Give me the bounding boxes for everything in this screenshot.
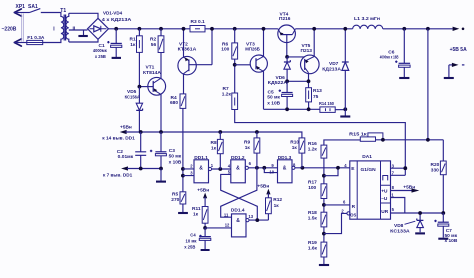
junction VT5 emitter/rail: [312, 27, 316, 31]
svg-text:R10: R10: [290, 140, 299, 146]
wire: DD1.3 output to DA1 E pin: [295, 167, 350, 169]
zener VD5: [125, 87, 143, 132]
svg-text:МП26Б: МП26Б: [245, 47, 260, 53]
junction DD1.3 pin10 tap: [262, 166, 266, 170]
node +5Vn feed arrow (to pin 14 DD1): [102, 124, 135, 141]
svg-text:270: 270: [171, 197, 179, 203]
svg-text:VT1: VT1: [146, 65, 155, 71]
resistor R6: [221, 29, 237, 93]
svg-text:12: 12: [225, 222, 230, 227]
junction R18/R19 (OS pin): [322, 232, 326, 236]
core: [64, 15, 65, 41]
svg-text:1к: 1к: [245, 145, 251, 151]
junction R17/R18 (R pin): [322, 203, 326, 207]
transistor VT4: [278, 11, 296, 57]
junction VD5/C2/rail: [139, 130, 143, 134]
svg-text:R19: R19: [308, 240, 317, 246]
inductor L1: [353, 16, 383, 29]
svg-text:П216: П216: [279, 16, 291, 22]
wire: DD1.1 input pins: [183, 169, 194, 176]
wire: feedback drop from rail: [427, 29, 429, 140]
wire: DD1.3 pin10 dogleg: [264, 168, 277, 173]
svg-text:C4: C4: [190, 232, 196, 237]
svg-text:L1 3.2 мГн: L1 3.2 мГн: [354, 16, 380, 22]
wire: DD1.4 output to R12: [249, 219, 269, 221]
svg-text:1.6к: 1.6к: [308, 245, 318, 251]
svg-text:x 25В: x 25В: [184, 245, 195, 250]
ground (center tap): [78, 30, 87, 36]
svg-text:10 мк: 10 мк: [186, 238, 198, 243]
wire: +5Vn rail: [126, 132, 302, 138]
svg-text:КД213А: КД213А: [322, 67, 341, 73]
resistor R8: [211, 132, 224, 169]
resistor R13: [306, 88, 322, 110]
junction VT4 base/VD6/VT5: [285, 55, 289, 59]
wire: DD1.1 output to DD1.2 pin4: [211, 168, 230, 170]
svg-text:100: 100: [308, 185, 316, 191]
svg-text:11: 11: [224, 213, 229, 218]
wire: to DD1.4 pin12: [205, 227, 231, 229]
resistor R12: [266, 197, 283, 220]
resistor R19: [308, 240, 327, 264]
transistor VT5: [301, 29, 320, 88]
wire: UR pin 5 row: [391, 212, 444, 214]
resistor R3: [190, 19, 205, 32]
svg-text:DD1.2: DD1.2: [231, 155, 245, 161]
wire: secondary top to bridge: [69, 13, 98, 18]
ground (VD7/R14): [340, 109, 350, 116]
ground (C4): [201, 249, 210, 251]
capacitor C2: [117, 132, 146, 169]
junction trunk/DD1.1 pin3: [181, 174, 185, 178]
resistor R18: [308, 210, 327, 242]
svg-text:R11: R11: [192, 206, 201, 212]
junction C6/rail: [402, 27, 406, 31]
wire: DD1.2 output row to DD1.3: [248, 167, 277, 169]
svg-text:&: &: [236, 218, 240, 224]
ground (C3): [156, 169, 166, 182]
svg-text:50 мк: 50 мк: [267, 95, 280, 101]
resistor R16: [308, 141, 327, 184]
wire: main rail VT4 to L1: [295, 28, 352, 30]
svg-text:+5Вн: +5Вн: [403, 185, 415, 191]
svg-text:VD1-VD4: VD1-VD4: [103, 10, 122, 16]
svg-text:13: 13: [248, 214, 253, 219]
resistor R10: [290, 138, 305, 168]
wire: center tap to ground and bridge left: [69, 29, 88, 31]
junction VT5/R13: [307, 79, 311, 83]
ground (R5): [178, 212, 188, 214]
junction VD7/R14/ground: [343, 107, 347, 111]
wire: R pin 6 to DA1: [324, 204, 350, 206]
svg-text:1к: 1к: [292, 145, 298, 151]
wire: R4 to DD1.1 inputs trunk: [182, 108, 184, 191]
junction R1/rail: [138, 27, 142, 31]
svg-text:R2: R2: [150, 37, 156, 43]
svg-text:&: &: [283, 165, 287, 171]
svg-text:XP1: XP1: [16, 4, 26, 10]
bridge rectifier VD1-VD4: [88, 10, 132, 39]
svg-text:~220В: ~220В: [2, 27, 17, 33]
wire: top AC from plug to switch: [14, 12, 29, 14]
wire: pins 3 and 7 to timing node: [391, 168, 406, 175]
zener VD8: [390, 213, 423, 234]
capacitor C7: [434, 213, 458, 244]
resistor R11: [192, 206, 208, 228]
svg-text:DD1.3: DD1.3: [278, 155, 292, 161]
svg-text:+5В 5А: +5В 5А: [450, 47, 467, 53]
capacitor C6: [380, 29, 410, 77]
resistor R4: [170, 94, 186, 109]
junction VT2 emitter/rail: [182, 27, 186, 31]
svg-text:F1 0.3A: F1 0.3A: [27, 35, 45, 41]
resistor R17: [308, 179, 327, 212]
switch SA1: [28, 4, 40, 12]
svg-text:56: 56: [151, 42, 157, 48]
transformer T1: [41, 8, 76, 43]
capacitor C5: [267, 81, 292, 109]
wire: C2/C3 bottoms: [127, 168, 161, 170]
junction C2 bottom: [139, 167, 143, 171]
svg-text:C3: C3: [169, 148, 175, 154]
resistor R14: [319, 101, 345, 112]
junction VT2 base/rail: [210, 27, 214, 31]
power flag +5Vn (R12): [257, 183, 270, 197]
svg-text:КТ814А: КТ814А: [143, 70, 162, 76]
wire: -U pin 1 to UR node: [391, 198, 405, 214]
diode VD6: [268, 57, 291, 86]
svg-text:VD8: VD8: [394, 223, 404, 229]
output terminal +5V: [450, 27, 467, 53]
svg-text:КД522А: КД522А: [268, 80, 288, 86]
junction VD7/rail: [343, 27, 347, 31]
svg-text:R18: R18: [308, 210, 317, 216]
svg-text:4000мк x 16В: 4000мк x 16В: [380, 55, 399, 60]
svg-text:R16: R16: [308, 141, 317, 147]
transistor VT2: [178, 29, 212, 94]
junction R1/VD5/VT1 base: [138, 85, 142, 89]
svg-text:330: 330: [431, 167, 439, 173]
wire: R16 top to R15 left: [324, 140, 360, 145]
svg-text:R: R: [352, 204, 356, 210]
node arrow to pin 7 DD1: [103, 166, 133, 178]
resistor R7: [222, 86, 238, 110]
junction pin3/timing vertical: [403, 166, 407, 170]
junction C1/rail: [114, 27, 118, 31]
svg-text:100: 100: [221, 47, 229, 53]
svg-text:+U: +U: [381, 189, 388, 195]
svg-text:R5: R5: [172, 192, 178, 198]
junction X/DD1.4 out: [255, 218, 259, 222]
svg-text:R15 1к: R15 1к: [349, 131, 367, 137]
svg-text:R9: R9: [244, 140, 250, 146]
svg-text:x 10В: x 10В: [169, 160, 182, 166]
junction R16/R17 divider tap: [322, 174, 326, 178]
resistor R1: [130, 29, 143, 87]
wire: +U pin 8 with +5Vn arrow: [391, 185, 420, 193]
junction C3 bottom: [159, 167, 163, 171]
svg-text:C7: C7: [446, 228, 452, 234]
junction R9/+5Vn rail: [255, 130, 259, 134]
transistor VT3: [245, 29, 267, 110]
junction R8/+5Vn rail: [218, 130, 222, 134]
wire: main rail from bridge to VT4: [109, 28, 278, 30]
ground (C1): [112, 57, 121, 59]
output terminal minus: [449, 63, 465, 77]
svg-text:1.2к: 1.2к: [308, 146, 318, 152]
svg-text:DA1: DA1: [362, 154, 372, 160]
wire: main rail L1 to output: [383, 28, 453, 30]
svg-text:R17: R17: [308, 179, 317, 185]
svg-text:R13: R13: [313, 88, 322, 94]
svg-text:VD7: VD7: [329, 61, 339, 67]
svg-text:680: 680: [170, 100, 178, 106]
svg-text:&: &: [236, 165, 240, 171]
gate DD1.2: [228, 155, 252, 183]
svg-text:4 x КД213А: 4 x КД213А: [102, 17, 132, 23]
resistor R9: [244, 132, 260, 168]
junction VT1/C3/rail: [159, 130, 163, 134]
svg-text:50 мк: 50 мк: [169, 154, 182, 160]
wire: divider tap to E row: [324, 168, 338, 176]
power flag +5Vn (R11): [197, 188, 209, 207]
wire: OS dogleg to DA1 pin 2: [324, 213, 348, 233]
svg-text:КТ361А: КТ361А: [178, 47, 197, 53]
junction R9/DD1.2 out/X: [255, 166, 259, 170]
svg-text:R12: R12: [273, 197, 282, 203]
svg-text:SA1: SA1: [28, 4, 38, 10]
svg-text:–U: –U: [381, 196, 388, 202]
svg-text:DD1.1: DD1.1: [194, 155, 208, 161]
svg-text:75: 75: [313, 94, 319, 100]
junction trunk/DD1.1 pin2: [181, 167, 185, 171]
junction R8/DD1.1 out: [218, 167, 222, 171]
gate DD1.1: [190, 155, 213, 183]
svg-text:R8: R8: [211, 140, 217, 146]
svg-text:10: 10: [269, 169, 274, 174]
wire: VT3 base: [235, 64, 251, 66]
wire: VT5 base: [287, 56, 305, 58]
wire: cross-coupling DD1.2 pin5 to DD1.4 output: [221, 174, 258, 220]
ground (R19): [319, 264, 329, 266]
svg-text:к 7 выв. DD1: к 7 выв. DD1: [103, 173, 133, 179]
svg-text:к 14 выв. DD1: к 14 выв. DD1: [102, 136, 135, 142]
svg-text:+5Вн: +5Вн: [257, 183, 269, 189]
svg-text:R3 0.1: R3 0.1: [191, 19, 205, 25]
junction R13 bottom: [307, 107, 311, 111]
svg-text:0.01мк: 0.01мк: [118, 154, 135, 159]
resistor R5: [171, 192, 186, 212]
junction R6/R7/VT3 base: [233, 63, 237, 67]
junction C7/R20/UR row: [441, 211, 445, 215]
wire: emitter bus y109: [264, 108, 320, 110]
junction feedback/R20 row: [426, 138, 430, 142]
secondary winding II: [66, 13, 69, 42]
junction R15 wiper node: [381, 138, 385, 142]
junction VT3 collector/rail: [262, 27, 266, 31]
junction tap/E row: [336, 166, 340, 170]
svg-text:+5Вн: +5Вн: [120, 124, 132, 130]
svg-text:КС133А: КС133А: [390, 228, 410, 234]
svg-text:G1/GN: G1/GN: [361, 167, 377, 173]
svg-text:x 10В: x 10В: [267, 101, 280, 107]
gate DD1.3: [269, 155, 296, 183]
svg-text:1к: 1к: [130, 42, 136, 48]
junction feedback/rail: [426, 27, 430, 31]
svg-text:&: &: [199, 165, 203, 171]
junction R6/rail: [233, 27, 237, 31]
IC DA1: [341, 154, 394, 219]
svg-text:x 25В: x 25В: [95, 54, 106, 60]
svg-text:R20: R20: [431, 162, 440, 168]
svg-text:C5: C5: [268, 89, 274, 95]
wire: VD6 bottom to R13 column: [287, 80, 308, 82]
junction R11/C4/pin12: [203, 226, 207, 230]
primary winding I: [41, 13, 64, 43]
ground (minus terminal): [444, 77, 454, 79]
wire: VT1 base: [139, 86, 153, 88]
svg-text:1к: 1к: [211, 145, 217, 151]
wire: secondary bottom to bridge: [69, 39, 98, 42]
wire: bottom AC from plug to fuse: [14, 42, 26, 44]
svg-text:1.2к: 1.2к: [222, 92, 232, 98]
transistor VT1: [143, 65, 166, 132]
svg-text:КС156А: КС156А: [125, 94, 141, 100]
svg-text:R14 150: R14 150: [319, 101, 334, 107]
svg-text:1.5к: 1.5к: [308, 216, 318, 222]
svg-text:R7: R7: [223, 86, 229, 92]
svg-text:П213: П213: [301, 48, 313, 54]
resistor R2: [150, 29, 164, 78]
svg-text:R6: R6: [222, 42, 228, 48]
svg-text:+5Вн: +5Вн: [197, 188, 209, 194]
resistor R20: [431, 140, 447, 213]
ground (C6): [399, 77, 409, 79]
fuse F1 0.3A: [27, 35, 45, 45]
connector XP1: [14, 4, 25, 46]
rheostat R15: [349, 131, 443, 141]
gate DD1.4: [224, 207, 254, 237]
svg-text:UR: UR: [381, 209, 388, 215]
wire: R7 to timing node (long): [235, 110, 406, 176]
svg-text:VD5: VD5: [127, 89, 137, 95]
junction VD8/UR row: [418, 211, 422, 215]
diode VD7: [322, 29, 348, 110]
capacitor C3: [150, 132, 182, 169]
svg-text:1к: 1к: [274, 203, 280, 209]
junction VD6/C5: [285, 79, 289, 83]
svg-text:DD1.4: DD1.4: [231, 207, 245, 213]
capacitor C4: [184, 228, 211, 250]
capacitor C1: [93, 29, 122, 60]
ground (VD8): [415, 232, 425, 234]
junction C5 bottom: [285, 107, 289, 111]
ground (C7): [438, 238, 448, 240]
svg-text:1к: 1к: [193, 211, 199, 217]
svg-text:4000мк: 4000мк: [93, 48, 107, 54]
svg-text:OS: OS: [350, 213, 356, 218]
junction R2/rail: [159, 27, 163, 31]
svg-text:R1: R1: [130, 37, 136, 43]
junction R10/DD1.3 out: [301, 166, 305, 170]
svg-text:R4: R4: [171, 95, 177, 101]
wire: cross-coupling DD1.2 out to DD1.4 pin11: [221, 168, 257, 217]
